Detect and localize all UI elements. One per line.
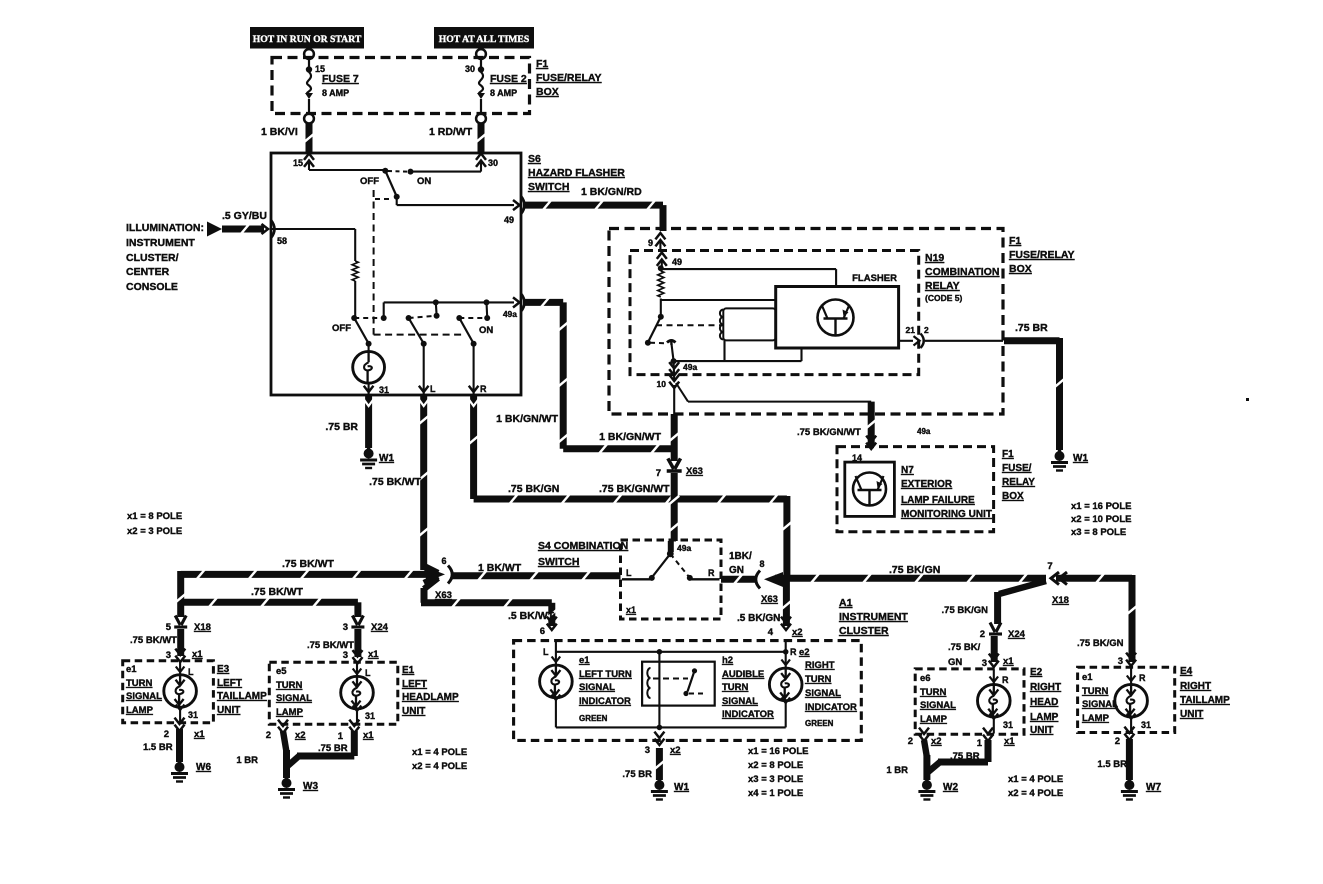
svg-text:GN: GN xyxy=(948,657,962,668)
svg-text:FUSE 7: FUSE 7 xyxy=(322,73,359,85)
svg-text:UNIT: UNIT xyxy=(402,706,425,717)
wire X24 to E1 xyxy=(307,629,379,664)
svg-text:TURN: TURN xyxy=(722,682,749,693)
svg-text:HAZARD FLASHER: HAZARD FLASHER xyxy=(528,167,625,179)
svg-text:31: 31 xyxy=(1141,720,1151,730)
svg-text:e1: e1 xyxy=(579,655,590,666)
svg-text:GREEN: GREEN xyxy=(805,719,834,728)
wire .5 BK/WT (to cluster) xyxy=(421,578,557,626)
instrument cluster A1 box xyxy=(514,641,862,741)
pin L (S6) xyxy=(419,344,436,394)
svg-text:FUSE/RELAY: FUSE/RELAY xyxy=(1009,249,1075,261)
ground W6 (E3) xyxy=(171,761,211,782)
svg-text:INDICATOR: INDICATOR xyxy=(805,702,857,713)
svg-text:6: 6 xyxy=(441,556,446,566)
svg-text:SIGNAL: SIGNAL xyxy=(126,691,162,702)
svg-text:MONITORING UNIT: MONITORING UNIT xyxy=(901,509,992,520)
svg-text:.75 BK/GN: .75 BK/GN xyxy=(1077,638,1124,649)
svg-text:CONSOLE: CONSOLE xyxy=(126,281,178,293)
svg-text:.75 BK/WT: .75 BK/WT xyxy=(251,586,304,598)
wire contact to flasher bottom xyxy=(671,344,802,364)
svg-text:SIGNAL: SIGNAL xyxy=(722,696,758,707)
svg-text:.75 BR: .75 BR xyxy=(318,743,348,754)
svg-text:FUSE/: FUSE/ xyxy=(1002,463,1032,474)
wire 1 BK/GN (S4 to X63) xyxy=(721,551,757,584)
pin 4 x2 (A1 right) xyxy=(768,617,803,638)
svg-text:3: 3 xyxy=(982,658,987,669)
svg-text:10: 10 xyxy=(657,379,667,389)
svg-text:x4 = 1 POLE: x4 = 1 POLE xyxy=(748,788,803,799)
S4 switch contacts L/R xyxy=(622,554,720,615)
svg-text:W6: W6 xyxy=(196,762,211,773)
svg-text:49a: 49a xyxy=(917,427,931,436)
svg-text:1.5 BR: 1.5 BR xyxy=(1097,759,1127,770)
pin R (S6) xyxy=(469,344,487,394)
svg-text:.75 BK/GN: .75 BK/GN xyxy=(889,564,940,576)
svg-text:INDICATOR: INDICATOR xyxy=(579,696,631,707)
svg-text:TURN: TURN xyxy=(1082,686,1109,697)
svg-text:x2 = 8 POLE: x2 = 8 POLE xyxy=(748,760,803,771)
wire pin10 to lamp-failure unit xyxy=(676,383,931,446)
connector X63 pin 7 xyxy=(656,458,703,479)
svg-text:LEFT: LEFT xyxy=(217,678,242,689)
svg-text:(CODE 5): (CODE 5) xyxy=(925,293,962,303)
svg-text:x1: x1 xyxy=(363,730,374,741)
ground W7 (E4) xyxy=(1121,779,1162,800)
svg-text:.75 BK/WT: .75 BK/WT xyxy=(282,558,335,570)
svg-text:2: 2 xyxy=(980,629,985,640)
svg-text:3: 3 xyxy=(166,650,171,661)
svg-text:L: L xyxy=(626,568,632,578)
svg-text:1 RD/WT: 1 RD/WT xyxy=(429,126,473,138)
svg-text:LAMP: LAMP xyxy=(126,705,154,716)
svg-text:2: 2 xyxy=(924,325,929,335)
svg-text:W1: W1 xyxy=(1073,453,1088,464)
svg-text:1.5 BR: 1.5 BR xyxy=(143,742,173,753)
svg-text:.5 GY/BU: .5 GY/BU xyxy=(222,210,267,222)
right turn signal indicator e2 (A1) xyxy=(769,641,802,727)
svg-text:x2: x2 xyxy=(931,736,942,747)
note connector pole sizes (A1) xyxy=(748,746,808,799)
svg-text:31: 31 xyxy=(379,385,389,395)
svg-text:.75 BK/WT: .75 BK/WT xyxy=(307,640,354,651)
label E1 LEFT HEADLAMP UNIT xyxy=(402,665,459,717)
label F1 FUSE/RELAY BOX (N7) xyxy=(1002,449,1035,502)
label R e2 RIGHT TURN SIGNAL INDICATOR GREEN xyxy=(790,647,857,728)
svg-text:TURN: TURN xyxy=(276,680,303,691)
svg-text:49: 49 xyxy=(504,215,514,225)
pin 3 x2 (A1 bottom) xyxy=(645,732,681,756)
connector X18 pin 7 (right) xyxy=(1047,561,1069,606)
svg-text:L: L xyxy=(430,384,436,394)
svg-text:L: L xyxy=(188,667,194,677)
wire .75 BR (E1) xyxy=(287,731,355,767)
svg-text:HOT AT ALL TIMES: HOT AT ALL TIMES xyxy=(439,34,530,45)
wire X24 to E2 xyxy=(948,636,1014,669)
svg-text:LAMP: LAMP xyxy=(276,707,304,718)
svg-text:TURN: TURN xyxy=(126,678,153,689)
svg-text:.75 BR: .75 BR xyxy=(950,751,980,762)
svg-text:UNIT: UNIT xyxy=(217,705,240,716)
ground W1 (below S6) xyxy=(360,448,394,469)
node 49 branch (N19) xyxy=(658,265,836,285)
label S4 COMBINATION SWITCH xyxy=(538,540,628,568)
wire .75 BK/GN (main right run) xyxy=(775,564,1046,583)
label E2 RIGHT HEAD LAMP UNIT xyxy=(1030,667,1061,736)
label e1 TURN SIGNAL LAMP (E3) xyxy=(126,664,162,716)
label e5 TURN SIGNAL LAMP (E1) xyxy=(276,666,312,718)
hazard switch R contact xyxy=(456,315,493,347)
svg-text:x2 = 4 POLE: x2 = 4 POLE xyxy=(1008,788,1063,799)
svg-text:INSTRUMENT: INSTRUMENT xyxy=(126,237,195,249)
svg-text:SIGNAL: SIGNAL xyxy=(276,693,312,704)
upper hazard contact OFF/ON xyxy=(309,160,481,200)
svg-text:3: 3 xyxy=(1118,656,1123,667)
pin 2 x2 (E2 bottom) xyxy=(908,728,942,747)
svg-text:ON: ON xyxy=(479,325,493,336)
svg-text:FUSE/RELAY: FUSE/RELAY xyxy=(536,72,602,84)
turn signal lamp (E2) xyxy=(978,670,1014,734)
pin 49 (N19) xyxy=(657,253,682,269)
fuse/relay box F1 (right) xyxy=(609,229,1003,415)
svg-text:31: 31 xyxy=(188,710,198,720)
fuse F1/2 (FUSE 2 8 AMP) pin 30 xyxy=(465,49,527,123)
svg-text:7: 7 xyxy=(656,468,661,479)
audible turn signal indicator h2 (A1) xyxy=(642,652,715,728)
A1 top rail xyxy=(556,649,789,655)
turn signal lamp (E1) xyxy=(341,663,375,724)
svg-text:e1: e1 xyxy=(1082,672,1093,683)
connector X24 pin 2 (right) xyxy=(980,623,1026,641)
svg-text:.75 BR: .75 BR xyxy=(1015,322,1048,334)
svg-text:1 BK/WT: 1 BK/WT xyxy=(478,562,522,574)
label S6 HAZARD FLASHER SWITCH xyxy=(528,153,625,193)
svg-text:CLUSTER/: CLUSTER/ xyxy=(126,252,179,264)
wire 1 BK/GN/WT (49a from S6) xyxy=(496,297,671,453)
svg-text:30: 30 xyxy=(488,158,498,168)
wire .75 BK/GN (to E4) xyxy=(1056,573,1137,662)
svg-text:x3 = 8 POLE: x3 = 8 POLE xyxy=(1071,527,1126,538)
svg-text:e5: e5 xyxy=(276,666,287,677)
svg-text:SWITCH: SWITCH xyxy=(528,181,569,193)
svg-text:x1 = 4 POLE: x1 = 4 POLE xyxy=(412,747,467,758)
svg-text:OFF: OFF xyxy=(332,323,351,334)
illumination resistor (S6) xyxy=(271,229,358,316)
combination relay N19 box xyxy=(630,251,919,375)
svg-text:15: 15 xyxy=(293,158,303,168)
svg-text:49: 49 xyxy=(672,257,682,267)
svg-text:21: 21 xyxy=(906,325,916,335)
svg-text:COMBINATION: COMBINATION xyxy=(925,266,999,278)
svg-text:e6: e6 xyxy=(920,673,931,684)
svg-text:x1: x1 xyxy=(1004,736,1015,747)
turn signal lamp (E3) xyxy=(164,661,198,722)
label h2 AUDIBLE TURN SIGNAL INDICATOR xyxy=(722,655,774,720)
svg-text:x1 = 4 POLE: x1 = 4 POLE xyxy=(1008,774,1063,785)
svg-text:4: 4 xyxy=(768,627,774,638)
label N7 EXTERIOR LAMP FAILURE MONITORING UNIT xyxy=(901,465,992,520)
ground W1 (right) xyxy=(1051,450,1088,471)
svg-text:BOX: BOX xyxy=(536,86,559,98)
svg-text:INSTRUMENT: INSTRUMENT xyxy=(839,611,908,623)
svg-text:N19: N19 xyxy=(925,252,944,264)
svg-text:1 BR: 1 BR xyxy=(886,765,908,776)
svg-text:x1: x1 xyxy=(194,729,205,740)
hazard lamp switch OFF (31) xyxy=(332,315,387,347)
svg-text:R: R xyxy=(480,384,487,394)
svg-text:h2: h2 xyxy=(722,655,733,666)
svg-text:e2: e2 xyxy=(799,647,810,658)
svg-text:2: 2 xyxy=(164,729,169,740)
svg-text:EXTERIOR: EXTERIOR xyxy=(901,479,953,490)
svg-text:FLASHER: FLASHER xyxy=(852,273,897,284)
wire .75 BK/WT (branch to X24) xyxy=(183,586,358,617)
svg-text:ON: ON xyxy=(417,176,431,187)
illumination lamp (S6) xyxy=(353,344,385,394)
svg-text:TAILLAMP: TAILLAMP xyxy=(1180,695,1230,706)
svg-text:F1: F1 xyxy=(1009,235,1021,247)
svg-text:49a: 49a xyxy=(677,543,691,553)
svg-text:CENTER: CENTER xyxy=(126,266,170,278)
wire .75 BK/GN (R output) xyxy=(469,396,792,578)
svg-text:RIGHT: RIGHT xyxy=(1030,682,1061,693)
relay resistor (N19) xyxy=(658,271,664,297)
svg-text:31: 31 xyxy=(365,711,375,721)
turn signal lamp (E4) xyxy=(1115,668,1151,732)
svg-text:S4 COMBINATION: S4 COMBINATION xyxy=(538,540,628,552)
svg-text:X63: X63 xyxy=(761,594,778,605)
pin 49a (N19 bottom) xyxy=(669,361,697,380)
lower rail to pin 49a xyxy=(384,299,514,317)
svg-text:x2: x2 xyxy=(670,745,681,756)
wire .75 BK/WT (main left run) xyxy=(181,558,434,579)
pin 10 (relay box bottom) xyxy=(657,375,680,414)
svg-text:.75 BK/WT: .75 BK/WT xyxy=(369,476,422,488)
svg-text:E1: E1 xyxy=(402,665,415,676)
svg-text:N7: N7 xyxy=(901,465,914,476)
wire .75 BK/GN/WT (to S4) xyxy=(599,473,679,541)
svg-text:GN: GN xyxy=(729,565,744,576)
pin 49a (S4) xyxy=(667,541,692,557)
svg-text:SIGNAL: SIGNAL xyxy=(1082,699,1118,710)
svg-text:R: R xyxy=(1002,675,1009,685)
speck xyxy=(1246,398,1249,401)
svg-text:F1: F1 xyxy=(1002,449,1014,460)
wire .75 BR (A1 ground) xyxy=(622,748,664,780)
label F1 FUSE/RELAY BOX (top) xyxy=(536,58,602,98)
N7 internal unit (transistor) xyxy=(845,462,895,516)
A1 bottom rail xyxy=(556,725,786,731)
node illumination input (.5 GY/BU) xyxy=(207,210,287,246)
svg-text:8: 8 xyxy=(759,559,764,569)
wire 1 BR (E2) xyxy=(886,740,927,780)
svg-text:TURN: TURN xyxy=(805,674,832,685)
svg-text:31: 31 xyxy=(1003,720,1013,730)
wire .5 BK/GN (to cluster R) xyxy=(737,578,791,626)
wire .75 BR (lamp ground) xyxy=(325,396,373,448)
taillamp unit E4 box xyxy=(1078,667,1175,732)
svg-text:L: L xyxy=(365,668,371,678)
switch linkage (dash-dot) xyxy=(374,190,462,335)
svg-text:SWITCH: SWITCH xyxy=(538,556,579,568)
svg-text:x1: x1 xyxy=(626,605,636,615)
power tag HOT IN RUN OR START xyxy=(250,27,364,49)
svg-text:e1: e1 xyxy=(126,664,137,675)
svg-text:GREEN: GREEN xyxy=(579,714,608,723)
label E3 LEFT TAILLAMP UNIT xyxy=(217,664,267,716)
wire 1.5 BR (E3) xyxy=(143,729,180,762)
svg-text:W2: W2 xyxy=(943,782,958,793)
pin 49 (S6 output) xyxy=(504,196,525,225)
svg-text:.75 BK/: .75 BK/ xyxy=(948,642,981,653)
note pole sizes (E2) xyxy=(1008,774,1063,799)
node X63 right hub (pin 8) xyxy=(756,559,783,605)
connector X18 pin 5 xyxy=(166,616,211,634)
wire 1 BK/GN/WT (relay 49a output) xyxy=(599,414,679,461)
power tag HOT AT ALL TIMES xyxy=(434,27,534,49)
svg-text:x1 = 8 POLE: x1 = 8 POLE xyxy=(127,511,182,522)
label N19 COMBINATION RELAY xyxy=(925,252,999,303)
svg-text:3: 3 xyxy=(343,622,348,633)
svg-text:SIGNAL: SIGNAL xyxy=(920,700,956,711)
pin 30 (S6) xyxy=(476,154,498,169)
svg-text:SIGNAL: SIGNAL xyxy=(805,688,841,699)
left turn signal indicator e1 (A1) xyxy=(540,641,573,727)
wire .75 BR (relay output) xyxy=(1004,322,1065,450)
svg-text:R: R xyxy=(708,568,715,578)
svg-text:UNIT: UNIT xyxy=(1030,725,1053,736)
svg-text:RIGHT: RIGHT xyxy=(1180,681,1211,692)
pin 15 (S6) xyxy=(293,154,314,169)
svg-text:1: 1 xyxy=(977,738,983,749)
pin 2 x2 (E1 bottom) xyxy=(266,720,306,741)
wire .75 BK/GN (X18 to X24 right) xyxy=(942,581,1046,624)
svg-text:INDICATOR: INDICATOR xyxy=(722,709,774,720)
pin 1 x1 (E2 bottom) xyxy=(977,728,1016,749)
svg-text:x2: x2 xyxy=(295,730,306,741)
combination switch S4 box xyxy=(621,540,722,619)
ground W3 (E1) xyxy=(278,777,318,798)
hazard flasher switch S6 box xyxy=(271,153,521,395)
svg-text:1 BK/VI: 1 BK/VI xyxy=(261,126,298,138)
wire to pin 49 xyxy=(397,197,514,205)
svg-text:W1: W1 xyxy=(379,453,394,464)
svg-text:LAMP: LAMP xyxy=(1030,712,1059,723)
pin 1 x1 (E1 bottom) xyxy=(338,720,375,742)
svg-text:2: 2 xyxy=(908,736,913,747)
svg-text:1 BK/GN/RD: 1 BK/GN/RD xyxy=(581,186,642,198)
svg-text:1 BR: 1 BR xyxy=(236,755,258,766)
pin 3 (E4 top) xyxy=(1118,653,1136,667)
svg-text:.75 BK/WT: .75 BK/WT xyxy=(130,635,177,646)
svg-text:x2: x2 xyxy=(792,627,803,638)
svg-text:x1: x1 xyxy=(368,649,379,660)
svg-text:58: 58 xyxy=(277,236,287,246)
svg-text:30: 30 xyxy=(465,64,475,74)
ground W2 (E2) xyxy=(918,779,958,800)
svg-text:HEADLAMP: HEADLAMP xyxy=(402,692,459,703)
wire .75 BK/WT (branch to X18) xyxy=(130,571,186,646)
label ILLUMINATION: INSTRUMENT CLUSTER/CENTER CONSOLE xyxy=(126,222,204,293)
svg-text:E2: E2 xyxy=(1030,667,1043,678)
svg-text:6: 6 xyxy=(540,626,545,637)
svg-text:E3: E3 xyxy=(217,664,230,675)
wire 1 RD/WT xyxy=(429,124,486,153)
svg-text:.75 BR: .75 BR xyxy=(622,769,652,780)
label e1 TURN SIGNAL LAMP (E4) xyxy=(1082,672,1118,724)
svg-text:x3 = 3 POLE: x3 = 3 POLE xyxy=(748,774,803,785)
svg-text:x1: x1 xyxy=(1003,656,1014,667)
taillamp unit E3 box xyxy=(123,661,214,723)
svg-text:SIGNAL: SIGNAL xyxy=(579,682,615,693)
svg-text:TAILLAMP: TAILLAMP xyxy=(217,691,267,702)
svg-text:AUDIBLE: AUDIBLE xyxy=(722,669,764,680)
svg-text:RIGHT: RIGHT xyxy=(805,660,835,671)
label F1 FUSE/RELAY BOX (right) xyxy=(1009,235,1075,275)
svg-text:W3: W3 xyxy=(303,781,318,792)
wire .75 BK/WT (L output) xyxy=(369,396,432,573)
svg-text:OFF: OFF xyxy=(360,176,379,187)
svg-text:7: 7 xyxy=(1047,561,1052,572)
svg-text:2: 2 xyxy=(1115,736,1120,747)
headlamp unit E2 box xyxy=(915,669,1024,734)
svg-text:1BK/: 1BK/ xyxy=(729,551,752,562)
svg-text:5: 5 xyxy=(166,622,172,633)
wire 1 BK/WT (to S4 L) xyxy=(452,562,621,581)
svg-text:49a: 49a xyxy=(683,362,697,372)
svg-text:TURN: TURN xyxy=(920,687,947,698)
svg-text:x2 = 10 POLE: x2 = 10 POLE xyxy=(1071,514,1131,525)
svg-text:x2 = 3 POLE: x2 = 3 POLE xyxy=(127,526,182,537)
svg-text:ILLUMINATION:: ILLUMINATION: xyxy=(126,222,204,234)
svg-text:3: 3 xyxy=(645,745,650,756)
svg-text:HEAD: HEAD xyxy=(1030,697,1058,708)
svg-text:x1: x1 xyxy=(192,649,203,660)
relay coil (N19) xyxy=(720,308,776,361)
svg-text:A1: A1 xyxy=(839,597,853,609)
svg-text:X24: X24 xyxy=(371,622,389,633)
svg-text:.75 BK/GN: .75 BK/GN xyxy=(942,605,989,616)
wire 1 BK/GN/RD xyxy=(523,186,663,231)
svg-text:1: 1 xyxy=(338,731,344,742)
svg-text:X63: X63 xyxy=(686,466,703,477)
node X63 left hub (pin 6) xyxy=(424,556,452,601)
svg-text:HOT IN RUN OR START: HOT IN RUN OR START xyxy=(253,34,362,45)
svg-text:CLUSTER: CLUSTER xyxy=(839,625,889,637)
pin 31 (S6) xyxy=(364,385,389,395)
wire 1.5 BR (E4) xyxy=(1097,739,1129,780)
wire 1 BR (E1) xyxy=(236,731,286,778)
pin 21/2 (N19 output) xyxy=(899,325,1003,348)
fuse/relay box F1 (top) xyxy=(272,58,530,114)
svg-text:.75 BK/GN/WT: .75 BK/GN/WT xyxy=(797,427,861,438)
pin 9 (relay box feed) xyxy=(648,233,665,252)
svg-text:8 AMP: 8 AMP xyxy=(322,88,349,98)
svg-text:LAMP: LAMP xyxy=(1082,713,1110,724)
note connector pole sizes (left) xyxy=(127,511,182,537)
note connector pole sizes (right) xyxy=(1071,501,1131,538)
svg-text:R: R xyxy=(1139,673,1146,683)
wire resistor to flasher xyxy=(661,299,776,301)
fuse F1/7 (FUSE 7 8 AMP) pin 15 xyxy=(304,49,359,123)
wire 1 BK/VI xyxy=(261,124,314,153)
svg-text:1 BK/GN/WT: 1 BK/GN/WT xyxy=(599,431,661,443)
pin 6 (A1 left) xyxy=(540,617,557,657)
svg-text:3: 3 xyxy=(343,650,348,661)
svg-text:LEFT TURN: LEFT TURN xyxy=(579,669,632,680)
svg-text:1 BK/GN/WT: 1 BK/GN/WT xyxy=(496,413,558,425)
svg-text:9: 9 xyxy=(648,238,653,248)
